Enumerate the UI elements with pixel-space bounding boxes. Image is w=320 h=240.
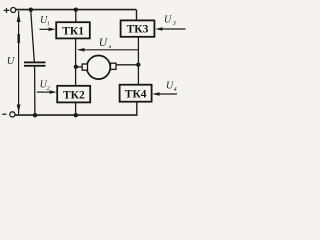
control arrow into TK4	[152, 92, 177, 96]
wire motor right lead	[116, 64, 138, 66]
label U (supply voltage)	[7, 56, 16, 67]
switch TK1	[56, 22, 90, 38]
wire right column (TK3 bottom to TK4 top)	[137, 37, 139, 85]
label U2	[40, 79, 50, 92]
motor right brush	[111, 63, 117, 69]
wire motor left lead	[76, 66, 82, 68]
svg-text:2: 2	[47, 86, 50, 92]
label U3	[164, 15, 176, 28]
svg-text:U: U	[164, 15, 172, 26]
node: capacitor top junction	[29, 8, 33, 12]
voltage arrow U (double-headed, between buses)	[17, 11, 21, 114]
switch TK4	[120, 85, 152, 102]
svg-text:ТК2: ТК2	[63, 89, 85, 101]
svg-text:ТК4: ТК4	[125, 89, 147, 101]
wire bottom bus	[15, 114, 137, 116]
wire TK4 bottom lead (to bus corner)	[136, 102, 138, 116]
control arrow into TK2	[37, 90, 57, 94]
svg-text:3: 3	[172, 21, 176, 27]
svg-text:ТК3: ТК3	[127, 24, 149, 36]
wire capacitor top lead	[31, 10, 35, 62]
svg-text:1: 1	[47, 22, 50, 28]
node: capacitor bottom junction	[33, 113, 37, 117]
wire TK2 bottom lead	[75, 102, 77, 115]
wire top bus	[16, 9, 136, 11]
control arrow into TK3	[155, 27, 185, 31]
motor M (armature circle)	[87, 56, 111, 80]
svg-text:ТК1: ТК1	[62, 25, 84, 37]
wire capacitor bottom lead	[34, 67, 36, 115]
motor left brush	[82, 64, 87, 70]
label Uya	[99, 37, 112, 50]
node: TK1 top junction	[74, 8, 78, 12]
svg-text:4: 4	[174, 86, 177, 93]
label U4	[166, 81, 177, 94]
node: motor right junction	[136, 62, 140, 66]
svg-text:я: я	[108, 44, 112, 50]
minus terminal	[2, 112, 15, 117]
node: motor left junction	[74, 65, 78, 69]
plus terminal	[4, 8, 16, 14]
armature voltage arrow Uya	[77, 48, 138, 52]
switch TK2	[57, 86, 90, 103]
capacitor C	[24, 62, 46, 67]
label U1	[40, 15, 50, 27]
wire left column (TK1 bottom to TK2 top)	[75, 38, 77, 86]
wire TK1 top lead	[75, 10, 77, 22]
wire TK3 top lead (bus corner down)	[136, 10, 138, 21]
node: TK2 bottom junction	[74, 113, 78, 117]
control arrow into TK1	[40, 28, 56, 32]
svg-text:U: U	[99, 37, 108, 49]
switch TK3	[121, 20, 155, 36]
